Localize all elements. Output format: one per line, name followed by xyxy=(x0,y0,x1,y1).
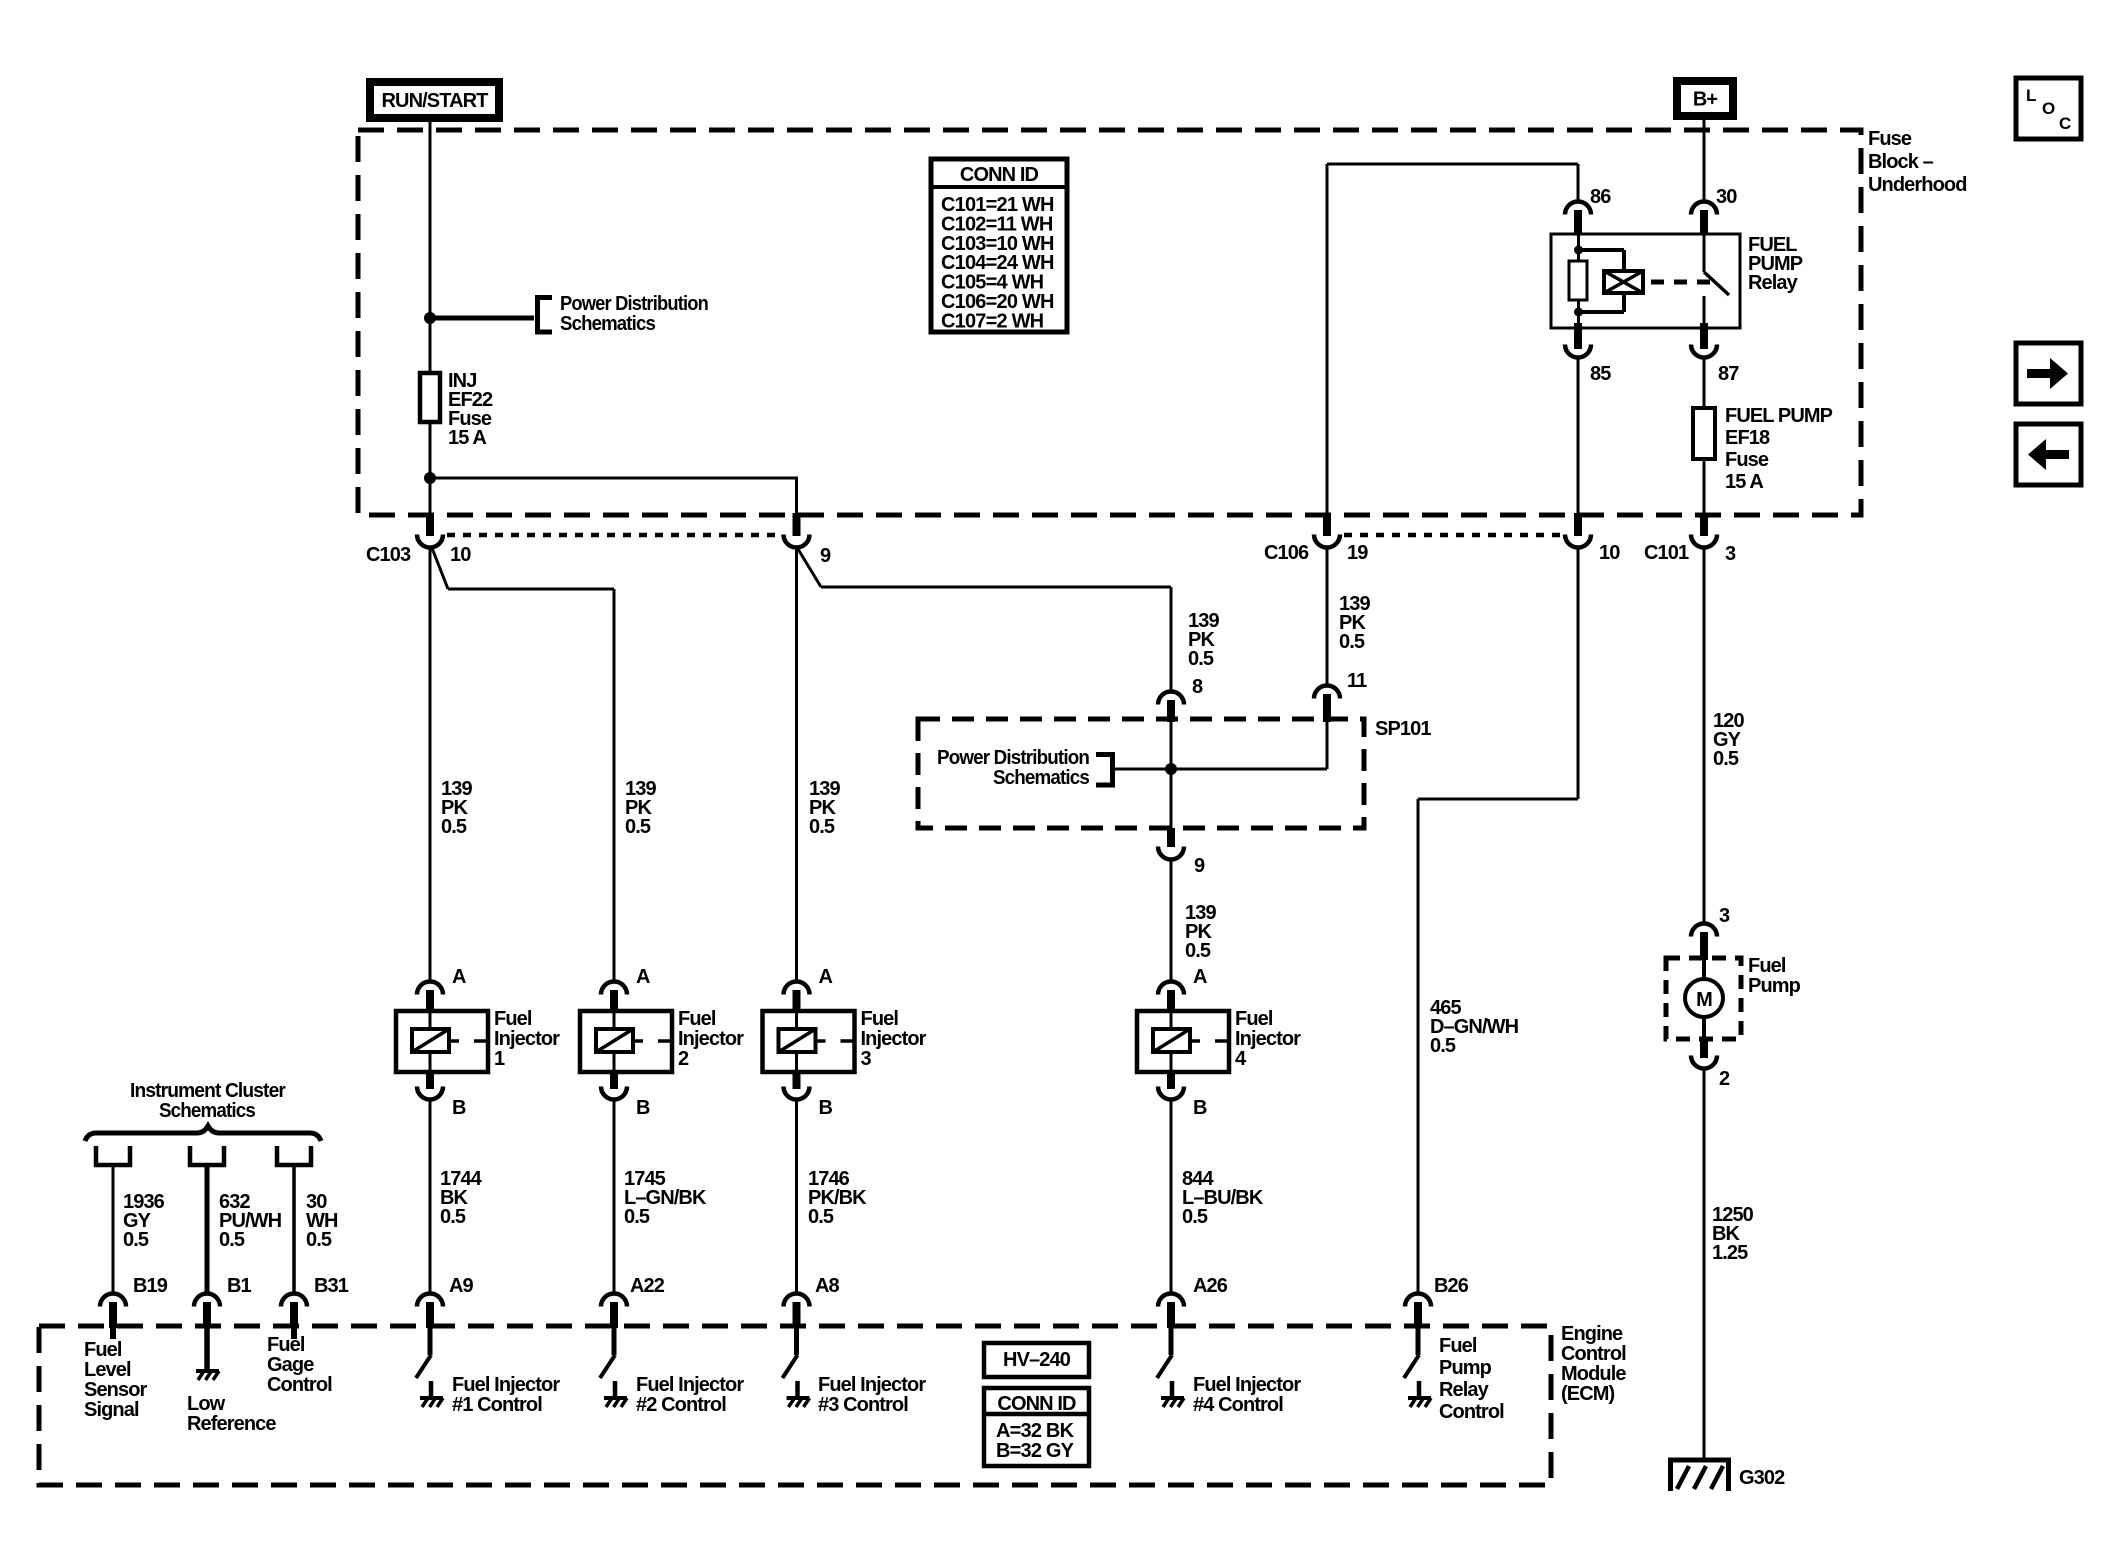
ECM driver Fuel Injector #3 Control xyxy=(794,1328,799,1355)
wire fuel pump to G302 1250 BK xyxy=(1703,1068,1706,1460)
svg-text:Injector: Injector xyxy=(678,1028,744,1050)
fuel injector 3 xyxy=(763,1011,855,1072)
svg-text:Block –: Block – xyxy=(1868,151,1934,173)
wire branch to connector 9 xyxy=(430,477,798,480)
wire injector1 feed 139 PK xyxy=(429,547,432,983)
splice box SP101 xyxy=(918,719,1364,828)
svg-text:0.5: 0.5 xyxy=(441,816,467,838)
connector injector 3 pin B xyxy=(793,1072,801,1089)
node junction to injector branch xyxy=(424,472,436,484)
svg-text:0.5: 0.5 xyxy=(624,1206,650,1228)
wire injector3 feed 139 PK xyxy=(795,547,798,983)
svg-text:Relay: Relay xyxy=(1748,272,1799,294)
svg-text:30: 30 xyxy=(1716,186,1737,208)
wire relay 86 feed from C106-19 xyxy=(1327,163,1578,166)
connector ECM pin B26 xyxy=(1405,1294,1431,1307)
svg-text:2: 2 xyxy=(678,1048,689,1070)
svg-text:1.25: 1.25 xyxy=(1712,1242,1748,1264)
svg-text:Control: Control xyxy=(267,1374,332,1396)
svg-text:11: 11 xyxy=(1347,670,1367,692)
svg-text:85: 85 xyxy=(1590,363,1611,385)
svg-text:1: 1 xyxy=(494,1048,505,1070)
svg-text:A: A xyxy=(1193,966,1207,988)
wire fuse to C103-10 xyxy=(429,422,432,514)
engine control module dashed box xyxy=(39,1326,1551,1485)
svg-text:C103: C103 xyxy=(366,544,411,566)
svg-text:2: 2 xyxy=(1719,1068,1730,1090)
svg-text:Underhood: Underhood xyxy=(1868,174,1967,196)
relay FUEL PUMP xyxy=(1551,234,1740,328)
svg-text:Instrument Cluster: Instrument Cluster xyxy=(130,1080,286,1102)
svg-text:Power Distribution: Power Distribution xyxy=(560,293,708,315)
svg-text:Control: Control xyxy=(1561,1343,1626,1365)
svg-text:Level: Level xyxy=(84,1359,131,1381)
connector injector 1 pin A xyxy=(417,982,443,995)
svg-text:Fuel Injector: Fuel Injector xyxy=(1193,1374,1301,1396)
svg-text:EF18: EF18 xyxy=(1725,427,1770,449)
svg-text:Fuel Injector: Fuel Injector xyxy=(818,1374,926,1396)
connector injector 2 pin A xyxy=(601,982,627,995)
CONN ID table (ECM) xyxy=(984,1388,1089,1466)
connector cup B19 xyxy=(96,1146,130,1165)
connector injector 3 pin A xyxy=(784,982,810,995)
svg-text:A: A xyxy=(636,966,650,988)
ECM driver Fuel Injector #2 Control xyxy=(612,1328,617,1355)
ECM driver Fuel Injector #4 Control xyxy=(1169,1328,1174,1355)
svg-text:86: 86 xyxy=(1590,186,1611,208)
connector C101 pin 3 xyxy=(1700,513,1708,536)
svg-text:#1 Control: #1 Control xyxy=(452,1394,542,1416)
connector C103 pin 10 xyxy=(426,513,434,536)
svg-text:0.5: 0.5 xyxy=(1430,1035,1456,1057)
wire SP101-9 to injector4 139 PK xyxy=(1170,859,1173,983)
connector injector 1 pin B xyxy=(426,1072,434,1089)
svg-text:O: O xyxy=(2042,99,2055,118)
svg-text:#2 Control: #2 Control xyxy=(636,1394,726,1416)
ECM driver Fuel Injector #1 Control xyxy=(428,1328,433,1355)
svg-text:9: 9 xyxy=(820,545,831,567)
wire injector3 to ECM A8 1746 PK/BK xyxy=(795,1099,798,1295)
nav arrow left box xyxy=(2016,424,2081,485)
svg-text:CONN ID: CONN ID xyxy=(960,164,1039,186)
svg-text:Pump: Pump xyxy=(1748,975,1801,997)
svg-text:3: 3 xyxy=(861,1048,872,1070)
connector C106 pin 19 xyxy=(1323,513,1331,536)
svg-text:10: 10 xyxy=(450,544,471,566)
svg-text:A: A xyxy=(819,966,833,988)
ground G302 xyxy=(1668,1458,1731,1463)
fuse FUEL PUMP EF18 15A xyxy=(1693,408,1715,459)
svg-text:L: L xyxy=(2026,86,2036,105)
wire C101-3 to fuel pump 120 GY xyxy=(1703,547,1706,925)
connector injector 4 pin A xyxy=(1158,982,1184,995)
connector pin 30 xyxy=(1691,202,1717,215)
svg-text:Schematics: Schematics xyxy=(560,313,656,335)
wire C106-19 to SP101-11 139 PK xyxy=(1326,547,1329,687)
svg-text:A=32 BK: A=32 BK xyxy=(996,1420,1075,1442)
wire C106-10 to ECM B26 465 D-GN/WH xyxy=(1577,547,1580,799)
svg-text:0.5: 0.5 xyxy=(1713,748,1739,770)
connector cup B1 xyxy=(190,1146,224,1165)
svg-text:C106: C106 xyxy=(1264,542,1309,564)
svg-text:Engine: Engine xyxy=(1561,1323,1623,1345)
svg-text:B+: B+ xyxy=(1693,89,1718,111)
connector ECM pin A26 xyxy=(1158,1294,1184,1307)
fuel injector 2 xyxy=(580,1011,672,1072)
wire relay 87 to fuse EF18 xyxy=(1703,357,1706,408)
legend box LOC xyxy=(2016,78,2081,139)
svg-text:0.5: 0.5 xyxy=(1339,631,1365,653)
connector pin 85 xyxy=(1574,323,1582,349)
wire connector9 to SP101-8 139 PK xyxy=(798,549,821,587)
svg-text:Injector: Injector xyxy=(494,1028,560,1050)
svg-text:B: B xyxy=(1193,1097,1207,1119)
svg-text:0.5: 0.5 xyxy=(625,816,651,838)
svg-text:3: 3 xyxy=(1719,905,1730,927)
connector fuel pump pin 2 xyxy=(1700,1039,1708,1058)
svg-text:Fuel: Fuel xyxy=(1235,1008,1273,1030)
svg-text:A22: A22 xyxy=(630,1275,665,1297)
connector C106 pin 10 xyxy=(1574,513,1582,536)
svg-text:B: B xyxy=(819,1097,833,1119)
CONN ID table xyxy=(931,159,1067,332)
connector ECM pin A22 xyxy=(601,1294,627,1307)
svg-text:0.5: 0.5 xyxy=(123,1229,149,1251)
node splice junction xyxy=(1165,763,1177,775)
connector pin 87 xyxy=(1700,323,1708,349)
svg-text:8: 8 xyxy=(1192,676,1203,698)
svg-text:Schematics: Schematics xyxy=(993,767,1090,789)
ECM input Fuel Gage Control xyxy=(291,1328,297,1339)
ECM input Fuel Level Sensor Signal xyxy=(110,1328,116,1339)
svg-text:RUN/START: RUN/START xyxy=(382,90,489,112)
wire RUN/START down xyxy=(429,122,432,373)
svg-text:Gage: Gage xyxy=(267,1354,314,1376)
svg-text:19: 19 xyxy=(1347,542,1368,564)
svg-text:0.5: 0.5 xyxy=(1188,648,1214,670)
wire B+ down to relay pin 30 xyxy=(1703,120,1706,203)
svg-text:0.5: 0.5 xyxy=(306,1229,332,1251)
callout box HV-240 xyxy=(984,1343,1089,1377)
svg-text:C: C xyxy=(2059,114,2071,133)
connector pin 86 xyxy=(1565,202,1591,215)
connector ECM pin A8 xyxy=(784,1294,810,1307)
svg-text:A: A xyxy=(452,966,466,988)
connector fuel pump pin 3 xyxy=(1691,924,1717,937)
svg-text:0.5: 0.5 xyxy=(440,1206,466,1228)
svg-text:Reference: Reference xyxy=(187,1413,276,1435)
svg-text:Module: Module xyxy=(1561,1363,1626,1385)
wire cluster B1 632 PU/WH xyxy=(205,1165,210,1295)
svg-text:Fuel: Fuel xyxy=(84,1339,122,1361)
wire injector2 to ECM A22 1745 L-GN/BK xyxy=(613,1099,616,1295)
svg-text:G302: G302 xyxy=(1739,1467,1785,1489)
svg-text:4: 4 xyxy=(1235,1048,1247,1070)
svg-text:Fuel: Fuel xyxy=(1439,1335,1477,1357)
svg-text:9: 9 xyxy=(1194,855,1205,877)
connector injector 2 pin B xyxy=(610,1072,618,1089)
svg-text:FUEL PUMP: FUEL PUMP xyxy=(1725,405,1833,427)
power feed box B+ xyxy=(1673,77,1737,120)
fuel injector 4 xyxy=(1137,1011,1229,1072)
connector ECM pin B1 xyxy=(194,1293,220,1306)
svg-text:(ECM): (ECM) xyxy=(1561,1383,1615,1405)
connector ECM pin B19 xyxy=(100,1294,126,1307)
svg-text:10: 10 xyxy=(1599,542,1620,564)
wire cluster B19 1936 GY xyxy=(112,1165,115,1295)
svg-text:Sensor: Sensor xyxy=(84,1379,148,1401)
inline connector dotted line C106 xyxy=(1344,533,1561,538)
svg-text:Fuel: Fuel xyxy=(494,1008,532,1030)
connector SP101 pin 11 xyxy=(1314,686,1340,699)
svg-text:B31: B31 xyxy=(314,1275,349,1297)
brace instrument cluster xyxy=(85,1126,321,1141)
fuse block underhood dashed box xyxy=(358,130,1861,515)
svg-text:Injector: Injector xyxy=(1235,1028,1301,1050)
connector cup B31 xyxy=(277,1146,311,1165)
wire relay 85 down xyxy=(1577,357,1580,514)
svg-text:Power Distribution: Power Distribution xyxy=(937,747,1089,769)
svg-text:B: B xyxy=(636,1097,650,1119)
svg-text:Injector: Injector xyxy=(861,1028,927,1050)
svg-text:C101: C101 xyxy=(1644,542,1689,564)
svg-text:B26: B26 xyxy=(1434,1275,1469,1297)
inline connector dotted line C103 xyxy=(447,533,783,538)
svg-text:Relay: Relay xyxy=(1439,1379,1490,1401)
svg-text:15 A: 15 A xyxy=(1725,471,1763,493)
connector C103 pin 9 xyxy=(793,513,801,536)
nav arrow right box xyxy=(2016,343,2081,404)
connector ECM pin A9 xyxy=(417,1294,443,1307)
reference bracket Power Distribution Schematics (SP101) xyxy=(1096,755,1113,786)
wire cluster B31 30 WH xyxy=(292,1165,296,1295)
power feed box RUN/START xyxy=(366,78,503,122)
ECM low reference ground xyxy=(204,1328,210,1370)
svg-text:Signal: Signal xyxy=(84,1399,139,1421)
svg-text:3: 3 xyxy=(1725,543,1736,565)
svg-text:CONN ID: CONN ID xyxy=(997,1393,1076,1415)
svg-text:15 A: 15 A xyxy=(448,427,486,449)
svg-text:HV–240: HV–240 xyxy=(1003,1349,1071,1371)
svg-text:0.5: 0.5 xyxy=(1182,1206,1208,1228)
connector SP101 pin 8 xyxy=(1158,692,1184,705)
svg-text:Fuel: Fuel xyxy=(861,1008,899,1030)
svg-text:Fuel: Fuel xyxy=(678,1008,716,1030)
fuel pump motor xyxy=(1666,958,1741,1039)
svg-text:B1: B1 xyxy=(227,1275,252,1297)
fuel injector 1 xyxy=(396,1011,488,1072)
svg-text:Fuel Injector: Fuel Injector xyxy=(636,1374,744,1396)
node junction at power distribution tap xyxy=(424,312,436,324)
svg-text:0.5: 0.5 xyxy=(809,816,835,838)
svg-text:87: 87 xyxy=(1718,363,1739,385)
svg-text:Fuse: Fuse xyxy=(1725,449,1769,471)
svg-text:M: M xyxy=(1696,989,1712,1011)
wire injector4 to ECM A26 844 L-BU/BK xyxy=(1170,1099,1173,1295)
wire splice SP101 xyxy=(1113,768,1327,771)
svg-text:Pump: Pump xyxy=(1439,1357,1492,1379)
reference bracket Power Distribution Schematics (fuse block) xyxy=(538,298,553,333)
fuse INJ EF22 15A xyxy=(420,373,440,422)
svg-text:B=32 GY: B=32 GY xyxy=(996,1440,1075,1462)
wire fuse EF18 to C101-3 xyxy=(1703,459,1706,514)
wire injector1 to ECM A9 1744 BK xyxy=(429,1099,432,1295)
svg-text:A9: A9 xyxy=(449,1275,474,1297)
wire tap to bracket xyxy=(430,316,534,321)
svg-text:Fuel Injector: Fuel Injector xyxy=(452,1374,560,1396)
svg-text:SP101: SP101 xyxy=(1375,718,1431,740)
connector SP101 pin 9 xyxy=(1167,828,1175,847)
svg-text:#3 Control: #3 Control xyxy=(818,1394,908,1416)
svg-text:Fuse: Fuse xyxy=(1868,128,1912,150)
svg-text:A8: A8 xyxy=(815,1275,840,1297)
svg-text:0.5: 0.5 xyxy=(1185,940,1211,962)
svg-text:Fuel: Fuel xyxy=(1748,955,1786,977)
ECM driver Fuel Pump Relay Control xyxy=(1416,1328,1421,1355)
connector injector 4 pin B xyxy=(1167,1072,1175,1089)
svg-text:Schematics: Schematics xyxy=(159,1100,256,1122)
svg-text:B19: B19 xyxy=(133,1275,168,1297)
svg-text:Low: Low xyxy=(187,1393,226,1415)
svg-text:Fuel: Fuel xyxy=(267,1334,305,1356)
svg-text:0.5: 0.5 xyxy=(808,1206,834,1228)
svg-text:Control: Control xyxy=(1439,1401,1504,1423)
wire injector2 feed 139 PK xyxy=(448,588,614,591)
svg-text:0.5: 0.5 xyxy=(219,1229,245,1251)
svg-text:#4 Control: #4 Control xyxy=(1193,1394,1283,1416)
svg-text:B: B xyxy=(452,1097,466,1119)
connector ECM pin B31 xyxy=(281,1294,307,1307)
svg-text:C107=2 WH: C107=2 WH xyxy=(941,310,1044,332)
svg-text:A26: A26 xyxy=(1193,1275,1228,1297)
